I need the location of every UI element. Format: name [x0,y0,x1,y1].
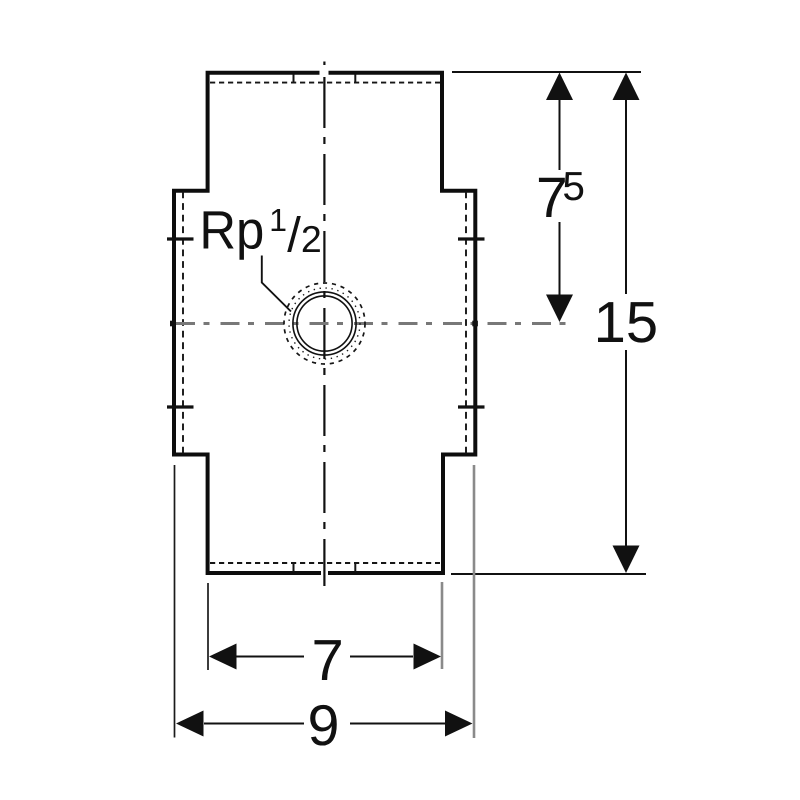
body outline left half [174,73,321,573]
dimension 75 arrow down [546,295,573,323]
dimension 7 arrow left [209,644,237,670]
dimension 7 arrow right [414,644,442,670]
leader line Rp1/2 [262,256,291,312]
dimension 9 line [204,723,445,725]
tick bottom right [354,562,356,572]
dimension 15 line [625,98,627,548]
hidden line bottom socket [210,562,440,564]
body outline right half [328,73,475,573]
dimension 15 arrow down [613,546,640,574]
hidden line left socket [182,192,184,455]
dimension 9 text [310,705,337,746]
dimension 9 arrow left [176,711,204,737]
extension line 7 left [207,583,209,670]
extension line bottom15 [451,573,646,575]
threaded hole: outer dashed circle [284,283,365,364]
dimension 7 text [314,640,340,680]
extension line top [452,71,641,73]
centerline vertical short dash above top [323,62,325,66]
hidden line right socket [465,192,467,455]
tick top right [354,75,356,84]
dimension 75 line [559,98,561,298]
threaded hole: bore circle [297,296,352,351]
dimension 9 arrow right [445,711,473,737]
centerline horizontal [176,322,567,325]
socket depth mark upper right [458,237,485,240]
centerline vertical [323,77,325,586]
dimension 75 text [539,178,565,217]
socket depth mark upper left [167,237,194,240]
dimension 75 arrow up [546,73,573,101]
threaded hole: thread dotted circle [289,288,360,359]
threaded hole: chamfer circle [293,292,356,355]
dimension 7 line [236,656,413,658]
extension line 9 left [174,465,176,738]
socket depth mark lower left [167,405,194,408]
extension line 9 right [473,465,476,738]
dimension 15 text [598,302,656,342]
hidden line top socket [210,82,440,84]
socket depth mark lower right [458,405,485,408]
tick top left [293,75,295,84]
tick bottom left [293,562,295,572]
dimension 15 arrow up [613,73,640,101]
centerline crossing blob [170,321,176,327]
label Rp 1/2 [204,211,263,259]
extension line 7 right [441,582,444,669]
centerline crossing blob right [472,321,478,327]
